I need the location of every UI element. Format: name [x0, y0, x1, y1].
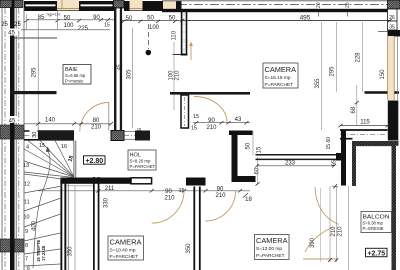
- svg-text:45: 45: [9, 119, 16, 125]
- svg-text:50: 50: [246, 142, 252, 149]
- svg-text:15: 15: [257, 146, 263, 153]
- svg-text:210: 210: [215, 193, 226, 199]
- svg-text:233: 233: [285, 160, 296, 166]
- left top hatched block 1: [0, 0, 12, 8]
- svg-text:S=13.00 mp: S=13.00 mp: [256, 246, 282, 252]
- shaft inner line x68: [67, 184, 69, 270]
- C-wall bottom arm: [238, 176, 256, 182]
- svg-text:400: 400: [32, 220, 38, 231]
- window W1 top (tan): [57, 0, 79, 11]
- svg-text:295: 295: [330, 66, 336, 77]
- HOL top wall right segment: [365, 91, 400, 94]
- svg-text:25: 25: [14, 22, 21, 28]
- partition wall x193-200 bottom rooms: [193, 187, 200, 270]
- left top hatched block 2: [14, 0, 23, 8]
- dim text 45 mid-left: [7, 116, 18, 125]
- svg-text:P=mozaic: P=mozaic: [65, 79, 84, 84]
- dim 210 210 vertical: [331, 226, 344, 237]
- vertical dim line x362.5: [362, 22, 364, 92]
- opening dim 100/210 vertical: [168, 42, 180, 110]
- stair right wall double: [60, 178, 66, 270]
- vertical dim line x336.5: [336, 22, 338, 92]
- svg-text:115: 115: [360, 119, 370, 125]
- svg-text:7: 7: [25, 257, 28, 263]
- dim 211: [105, 186, 115, 192]
- svg-text:13: 13: [23, 163, 29, 169]
- svg-text:S=8.20 mp: S=8.20 mp: [130, 159, 152, 164]
- axis dashed line with dot: [146, 24, 152, 55]
- dim line 495: [180, 19, 392, 22]
- svg-text:P=PARCHET: P=PARCHET: [130, 164, 156, 169]
- top-right corner column stack: [378, 0, 400, 37]
- top wall long right band: outer face line: [162, 0, 390, 2]
- dim 115: [339, 119, 390, 127]
- svg-text:P=PARCHET: P=PARCHET: [110, 254, 139, 260]
- dim 60 15 65 vertical stack: [326, 137, 338, 166]
- stair treads straight flight: [24, 174, 62, 266]
- corridor wall y154-160: [256, 153, 342, 161]
- door D2 dims 15 90 210 43: [191, 114, 242, 132]
- svg-text:100: 100: [63, 23, 74, 29]
- dim line window2: [122, 20, 181, 23]
- dim 330 vertical: [104, 197, 110, 208]
- niche sill lines: [124, 128, 141, 140]
- svg-text:225: 225: [78, 26, 89, 32]
- svg-text:60: 60: [326, 137, 332, 143]
- mid wall band segment right: [135, 131, 150, 141]
- svg-text:12: 12: [24, 182, 30, 188]
- svg-text:CAMERA: CAMERA: [265, 67, 297, 74]
- right wall pier black: [388, 101, 399, 141]
- BAIE label box: [63, 65, 91, 85]
- svg-text:330: 330: [104, 197, 110, 208]
- window W2 top (tan): [130, 0, 143, 11]
- dim chain row1 BAIE window: 85 hgp 50 90: [38, 13, 110, 29]
- svg-text:P=PARCHET: P=PARCHET: [256, 253, 285, 259]
- stair walking line: [33, 147, 50, 269]
- dim text 100 below window2: [149, 25, 160, 31]
- stairwell upper right boundary thin pair: [74, 141, 76, 179]
- svg-text:20: 20: [316, 2, 322, 8]
- wall 20 tick label b: [345, 2, 351, 16]
- wall 20 tick label a: [316, 2, 322, 16]
- left wall inner face line: [15, 8, 17, 270]
- dim line row2: [21, 29, 110, 31]
- svg-text:CAMERA: CAMERA: [110, 240, 142, 247]
- BALCON label box: [361, 212, 392, 233]
- dim 390 vertical: [310, 237, 316, 248]
- door D3 dims 90 210 15: [164, 188, 184, 201]
- partition wall x181-188 mid: [181, 95, 189, 128]
- stair numbers top: 14 15 16: [26, 143, 67, 151]
- svg-text:210: 210: [174, 70, 180, 81]
- svg-text:S=6.38 mp: S=6.38 mp: [363, 221, 384, 226]
- vestibule door arc (tan) to BAIE area: [80, 103, 109, 132]
- svg-text:350: 350: [186, 243, 192, 254]
- doors dim line y190.8: [38, 189, 250, 192]
- balcony separating wall vertical: [341, 130, 346, 186]
- left main wall over bands: [10, 125, 15, 252]
- svg-text:350: 350: [68, 246, 74, 257]
- svg-text:210: 210: [331, 226, 337, 237]
- dim text 25 b: [14, 22, 21, 28]
- svg-text:15: 15: [326, 144, 332, 150]
- C-wall top arm: [229, 131, 253, 136]
- svg-text:20: 20: [345, 2, 351, 8]
- dim text 25 a: [1, 22, 8, 28]
- top exterior wall segment E: [176, 1, 182, 12]
- dim 295 vertical: [330, 66, 336, 77]
- shaft wall pair x181-187 top: [173, 11, 188, 56]
- balcony parapet right hatched: [392, 146, 397, 270]
- right wall window tan band: [388, 36, 398, 100]
- dim 355 vertical: [315, 78, 321, 89]
- window W3 top (tan): [163, 1, 176, 9]
- dim text row2: 100 225: [63, 23, 88, 32]
- dim chain window2: 50 50 50: [126, 16, 176, 23]
- svg-text:210: 210: [206, 125, 217, 131]
- svg-text:390: 390: [310, 237, 316, 248]
- dim 350 shaft vertical: [68, 246, 74, 257]
- top wall long right band: inner thick bar: [162, 9, 388, 12]
- CAMERA bottom-left label box: [108, 236, 144, 260]
- balcony parapet top hatched: [352, 141, 399, 146]
- mid wall axis dash-dot: [24, 134, 135, 136]
- svg-text:18: 18: [245, 197, 252, 203]
- T-wall cap: [186, 178, 206, 186]
- svg-text:4: 4: [26, 145, 29, 151]
- top exterior wall segment B: [79, 1, 114, 11]
- dim text 45 top: [6, 29, 17, 37]
- BAIE vertical dim line x132: [131, 28, 133, 128]
- svg-text:15: 15: [191, 126, 197, 132]
- top exterior wall left segment A: [24, 1, 57, 11]
- dim 350 camera-bl vertical: [186, 243, 192, 254]
- BAIE fixture line: [15, 37, 58, 39]
- dim text 295 vertical BAIE: [32, 67, 38, 78]
- door D4 dims 90 210 18: [215, 186, 252, 203]
- balcony wall top lines: [340, 130, 388, 139]
- dim 60 vertical below: [253, 131, 261, 186]
- svg-text:140: 140: [45, 118, 56, 124]
- svg-text:30: 30: [32, 132, 38, 138]
- dim 50 15 vertical near C-wall: [246, 142, 263, 153]
- left main wall black band: [10, 0, 15, 270]
- extension line x57.5: [57, 11, 59, 30]
- camera-bl left wall: [93, 177, 99, 270]
- extension line x26.5: [26, 14, 28, 30]
- svg-text:68: 68: [351, 106, 357, 113]
- top exterior wall segment D: [143, 1, 164, 11]
- svg-text:50: 50: [64, 16, 71, 22]
- vertical dim line x321.5: [321, 22, 322, 262]
- HOL label box: [128, 150, 156, 170]
- landing bottom wall y177-184 solid part: [60, 178, 131, 184]
- svg-text:15: 15: [193, 114, 199, 120]
- svg-text:S=10.40 mp: S=10.40 mp: [110, 248, 136, 254]
- dim text 495: [300, 15, 311, 22]
- svg-text:228: 228: [356, 52, 362, 63]
- stair numbers left column: [23, 163, 30, 270]
- camera-bl top inner face line: [66, 185, 93, 187]
- svg-text:P=GRESIE: P=GRESIE: [363, 226, 384, 231]
- shaft gray line x74.8: [74, 186, 76, 270]
- svg-text:210: 210: [164, 195, 175, 201]
- dim 30 vertical on band: [30, 129, 39, 139]
- svg-text:210: 210: [338, 226, 344, 237]
- top wall axis dash-dot line: [162, 4, 390, 6]
- svg-text:17.2x28: 17.2x28: [41, 245, 46, 261]
- svg-text:50: 50: [126, 16, 133, 22]
- svg-text:150: 150: [380, 69, 386, 80]
- svg-text:110: 110: [172, 30, 178, 40]
- level marker +2.80: [84, 156, 106, 165]
- svg-text:S=6.65 mp: S=6.65 mp: [65, 73, 86, 78]
- dim chain 140 80 210: [45, 118, 102, 131]
- left wall second axis dash-dot: [18, 8, 20, 270]
- dim 68 vertical: [351, 85, 359, 125]
- svg-text:210: 210: [91, 124, 102, 130]
- svg-text:80: 80: [93, 118, 100, 124]
- door D4 arc tan: [206, 191, 236, 221]
- svg-text:305: 305: [127, 69, 133, 80]
- svg-text:43: 43: [235, 117, 242, 123]
- svg-text:hgp+110: hgp+110: [47, 13, 61, 17]
- svg-text:15: 15: [104, 23, 110, 29]
- left wall hatched band mid: [0, 125, 24, 139]
- landing wall hollow end part: [131, 178, 152, 184]
- level marker +2.75: [366, 248, 388, 257]
- svg-text:S=16.15 mp: S=16.15 mp: [265, 75, 291, 81]
- svg-text:45: 45: [8, 31, 15, 37]
- svg-text:10: 10: [24, 215, 30, 221]
- balcony parapet left hatched: [352, 141, 356, 186]
- BAIE right wall double: [114, 7, 122, 131]
- svg-text:25: 25: [1, 22, 8, 28]
- stair winder treads fan: [24, 141, 74, 178]
- BAIE vertical dim line x38: [37, 20, 39, 140]
- door swing arrow tan: [189, 42, 193, 61]
- left wall axis dash-dot: [4, 8, 6, 270]
- HOL top wall y92: [170, 92, 250, 95]
- CAMERA bottom-right label box: [255, 235, 290, 260]
- svg-text:100: 100: [149, 25, 160, 31]
- svg-text:90: 90: [217, 186, 224, 192]
- dim 400 stairs vertical: [32, 220, 38, 231]
- mid wall band y131-140 segment left: [24, 131, 74, 141]
- balcony threshold line: [348, 186, 350, 270]
- stair note rotated 15 TREPTE: [36, 239, 46, 262]
- svg-text:90: 90: [208, 118, 215, 124]
- door D2 arc tan: [194, 97, 227, 123]
- svg-text:11: 11: [24, 200, 30, 206]
- balcony dim lines vertical x330 x336.5: [328, 186, 338, 262]
- svg-text:295: 295: [32, 67, 38, 78]
- svg-text:8: 8: [25, 243, 28, 249]
- svg-text:9: 9: [25, 229, 28, 235]
- door D3 arc tan: [152, 191, 184, 223]
- rotated 18 mark on stairs: [68, 155, 75, 162]
- C-wall vertical: [232, 131, 238, 183]
- dim 228 vertical: [356, 52, 362, 63]
- top exterior wall segment C: [124, 1, 130, 11]
- left wall assembly outer thin line: [1, 8, 3, 270]
- balcony door arcs tan: [303, 187, 339, 259]
- svg-text:P=PARCHET: P=PARCHET: [265, 82, 294, 88]
- left wall hatched band low: [0, 239, 24, 252]
- svg-text:355: 355: [315, 78, 321, 89]
- BAIE bottom wall: [10, 91, 57, 94]
- tick cross balcony door top: [332, 184, 338, 189]
- dim 233: [255, 160, 336, 167]
- svg-text:15: 15: [39, 143, 45, 149]
- dim text 305 vertical: [127, 69, 133, 80]
- dim 45 vertical on wall: [117, 64, 123, 70]
- dim text 110 vertical: [172, 30, 178, 40]
- door post hatched: [111, 131, 124, 141]
- dim line door D2: [193, 121, 250, 124]
- svg-text:16: 16: [61, 144, 67, 150]
- svg-text:6: 6: [27, 266, 30, 270]
- svg-text:35: 35: [389, 25, 395, 31]
- dim line y123.8: [24, 122, 113, 125]
- svg-text:+2.75: +2.75: [367, 250, 385, 257]
- left wall inner line 2: [23, 8, 25, 270]
- dim line row1: [25, 18, 115, 22]
- svg-text:CAMERA: CAMERA: [256, 238, 288, 245]
- CAMERA top label box: [263, 63, 298, 88]
- dim 150 vertical: [380, 69, 386, 80]
- svg-text:90: 90: [165, 189, 172, 195]
- svg-text:+2.80: +2.80: [85, 158, 103, 165]
- column block hatch on top wall: [114, 0, 125, 8]
